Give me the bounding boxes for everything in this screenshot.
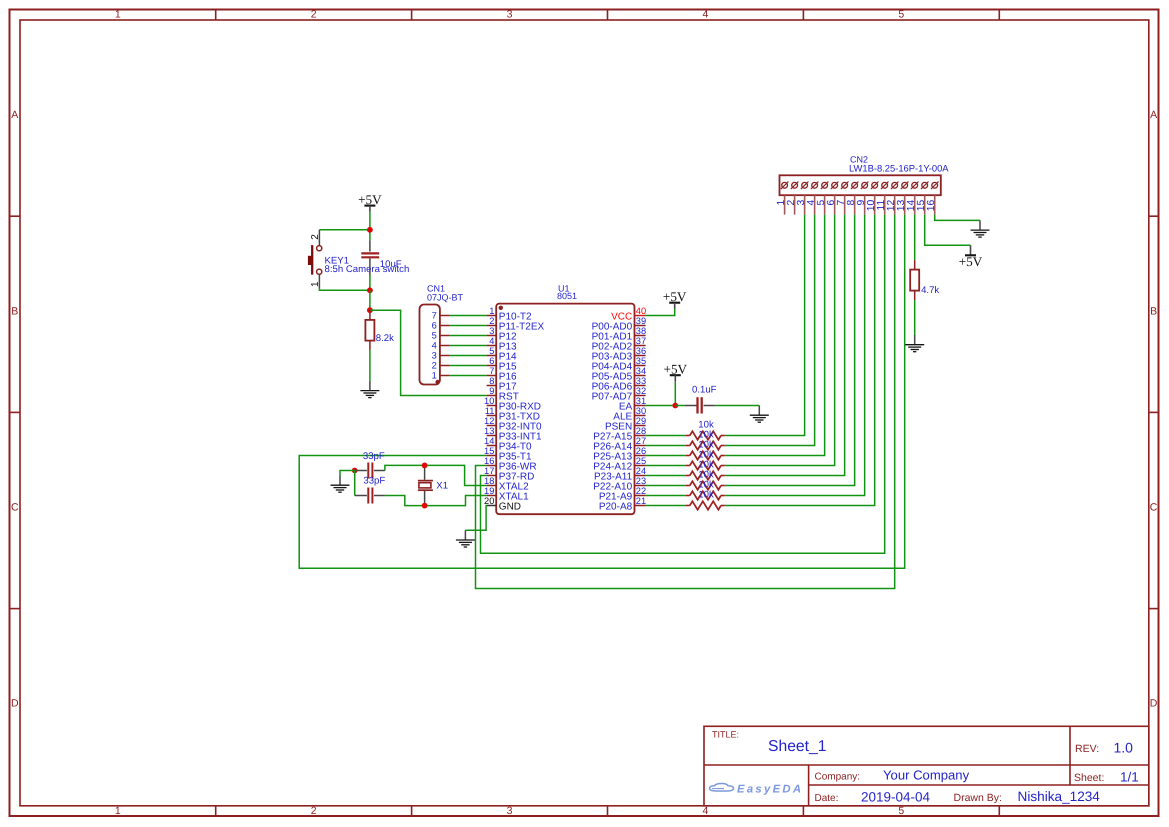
- svg-text:2: 2: [489, 316, 494, 326]
- svg-text:21: 21: [636, 496, 646, 506]
- svg-text:30: 30: [636, 406, 646, 416]
- svg-text:GND: GND: [499, 502, 521, 513]
- svg-text:2: 2: [311, 805, 317, 817]
- svg-text:0.1uF: 0.1uF: [692, 384, 717, 395]
- svg-text:4: 4: [703, 805, 709, 817]
- svg-text:TITLE:: TITLE:: [712, 730, 739, 740]
- svg-text:4: 4: [703, 9, 709, 21]
- svg-text:B: B: [11, 305, 18, 317]
- svg-text:6: 6: [432, 320, 437, 330]
- svg-text:3: 3: [432, 350, 437, 360]
- svg-text:10: 10: [484, 396, 494, 406]
- svg-text:34: 34: [636, 366, 646, 376]
- svg-text:Sheet_1: Sheet_1: [768, 738, 826, 755]
- svg-text:2: 2: [432, 360, 437, 370]
- svg-text:LW1B-8.25-16P-1Y-00A: LW1B-8.25-16P-1Y-00A: [849, 163, 949, 174]
- svg-text:33: 33: [636, 376, 646, 386]
- svg-text:11: 11: [485, 406, 495, 416]
- svg-text:+5V: +5V: [358, 192, 382, 207]
- svg-text:1: 1: [489, 306, 494, 316]
- svg-text:D: D: [11, 698, 19, 710]
- svg-text:25: 25: [636, 456, 646, 466]
- svg-text:26: 26: [636, 446, 646, 456]
- svg-text:14: 14: [484, 436, 494, 446]
- svg-text:REV:: REV:: [1075, 743, 1099, 755]
- svg-text:2: 2: [310, 234, 321, 240]
- svg-text:EasyEDA: EasyEDA: [737, 783, 803, 795]
- svg-text:+5V: +5V: [664, 361, 688, 376]
- svg-text:D: D: [1150, 698, 1158, 710]
- svg-text:7: 7: [432, 310, 437, 320]
- svg-text:X1: X1: [436, 481, 448, 492]
- svg-text:35: 35: [636, 356, 646, 366]
- svg-text:37: 37: [636, 336, 646, 346]
- svg-text:9: 9: [489, 386, 494, 396]
- svg-text:19: 19: [484, 486, 494, 496]
- svg-text:8.2k: 8.2k: [376, 333, 394, 344]
- svg-text:36: 36: [636, 346, 646, 356]
- svg-text:07JQ-BT: 07JQ-BT: [427, 293, 464, 303]
- svg-text:31: 31: [636, 396, 646, 406]
- svg-text:4.7k: 4.7k: [921, 285, 939, 296]
- svg-text:3: 3: [489, 326, 494, 336]
- svg-text:20: 20: [484, 496, 494, 506]
- svg-text:1: 1: [310, 281, 321, 287]
- svg-text:+5V: +5V: [663, 289, 687, 304]
- svg-text:A: A: [1150, 109, 1157, 121]
- svg-text:24: 24: [636, 466, 646, 476]
- svg-text:7: 7: [489, 366, 494, 376]
- svg-text:P20-A8: P20-A8: [599, 502, 633, 513]
- svg-text:1: 1: [115, 9, 121, 21]
- svg-text:16: 16: [926, 200, 937, 212]
- svg-text:4: 4: [489, 336, 494, 346]
- svg-text:17: 17: [484, 466, 494, 476]
- svg-text:Sheet:: Sheet:: [1074, 772, 1104, 784]
- svg-text:2019-04-04: 2019-04-04: [861, 790, 931, 805]
- svg-text:29: 29: [636, 416, 646, 426]
- svg-text:Nishika_1234: Nishika_1234: [1018, 789, 1101, 804]
- svg-text:38: 38: [636, 326, 646, 336]
- svg-text:8: 8: [489, 376, 494, 386]
- svg-text:6: 6: [489, 356, 494, 366]
- svg-text:10k: 10k: [698, 489, 714, 500]
- svg-text:B: B: [1150, 305, 1157, 317]
- svg-text:1/1: 1/1: [1120, 770, 1139, 785]
- svg-text:33pF: 33pF: [363, 476, 385, 487]
- svg-text:Date:: Date:: [815, 793, 839, 804]
- svg-text:23: 23: [636, 476, 646, 486]
- svg-text:16: 16: [484, 456, 494, 466]
- svg-text:Drawn By:: Drawn By:: [954, 792, 1002, 804]
- svg-text:1: 1: [115, 805, 121, 817]
- svg-text:C: C: [1150, 502, 1158, 514]
- svg-text:18: 18: [484, 476, 494, 486]
- svg-text:1.0: 1.0: [1114, 740, 1134, 756]
- svg-text:3: 3: [507, 805, 513, 817]
- svg-text:4: 4: [432, 340, 437, 350]
- svg-text:8051: 8051: [557, 291, 577, 301]
- svg-text:+5V: +5V: [959, 254, 983, 269]
- svg-text:5: 5: [489, 346, 494, 356]
- svg-text:22: 22: [636, 486, 646, 496]
- svg-text:15: 15: [484, 446, 494, 456]
- svg-text:27: 27: [636, 436, 646, 446]
- svg-text:5: 5: [898, 805, 904, 817]
- svg-text:2: 2: [311, 9, 317, 21]
- svg-text:12: 12: [484, 416, 494, 426]
- svg-text:5: 5: [898, 9, 904, 21]
- svg-text:C: C: [11, 502, 19, 514]
- svg-text:Company:: Company:: [815, 771, 861, 782]
- svg-text:39: 39: [636, 316, 646, 326]
- svg-text:13: 13: [484, 426, 494, 436]
- svg-text:32: 32: [636, 386, 646, 396]
- svg-text:28: 28: [636, 426, 646, 436]
- svg-text:Your Company: Your Company: [883, 767, 970, 782]
- svg-text:3: 3: [507, 9, 513, 21]
- svg-text:40: 40: [636, 306, 646, 316]
- svg-text:33pF: 33pF: [363, 451, 385, 462]
- svg-text:1: 1: [432, 370, 437, 380]
- svg-text:10uF: 10uF: [380, 259, 402, 270]
- svg-text:5: 5: [432, 330, 437, 340]
- svg-text:A: A: [11, 109, 18, 121]
